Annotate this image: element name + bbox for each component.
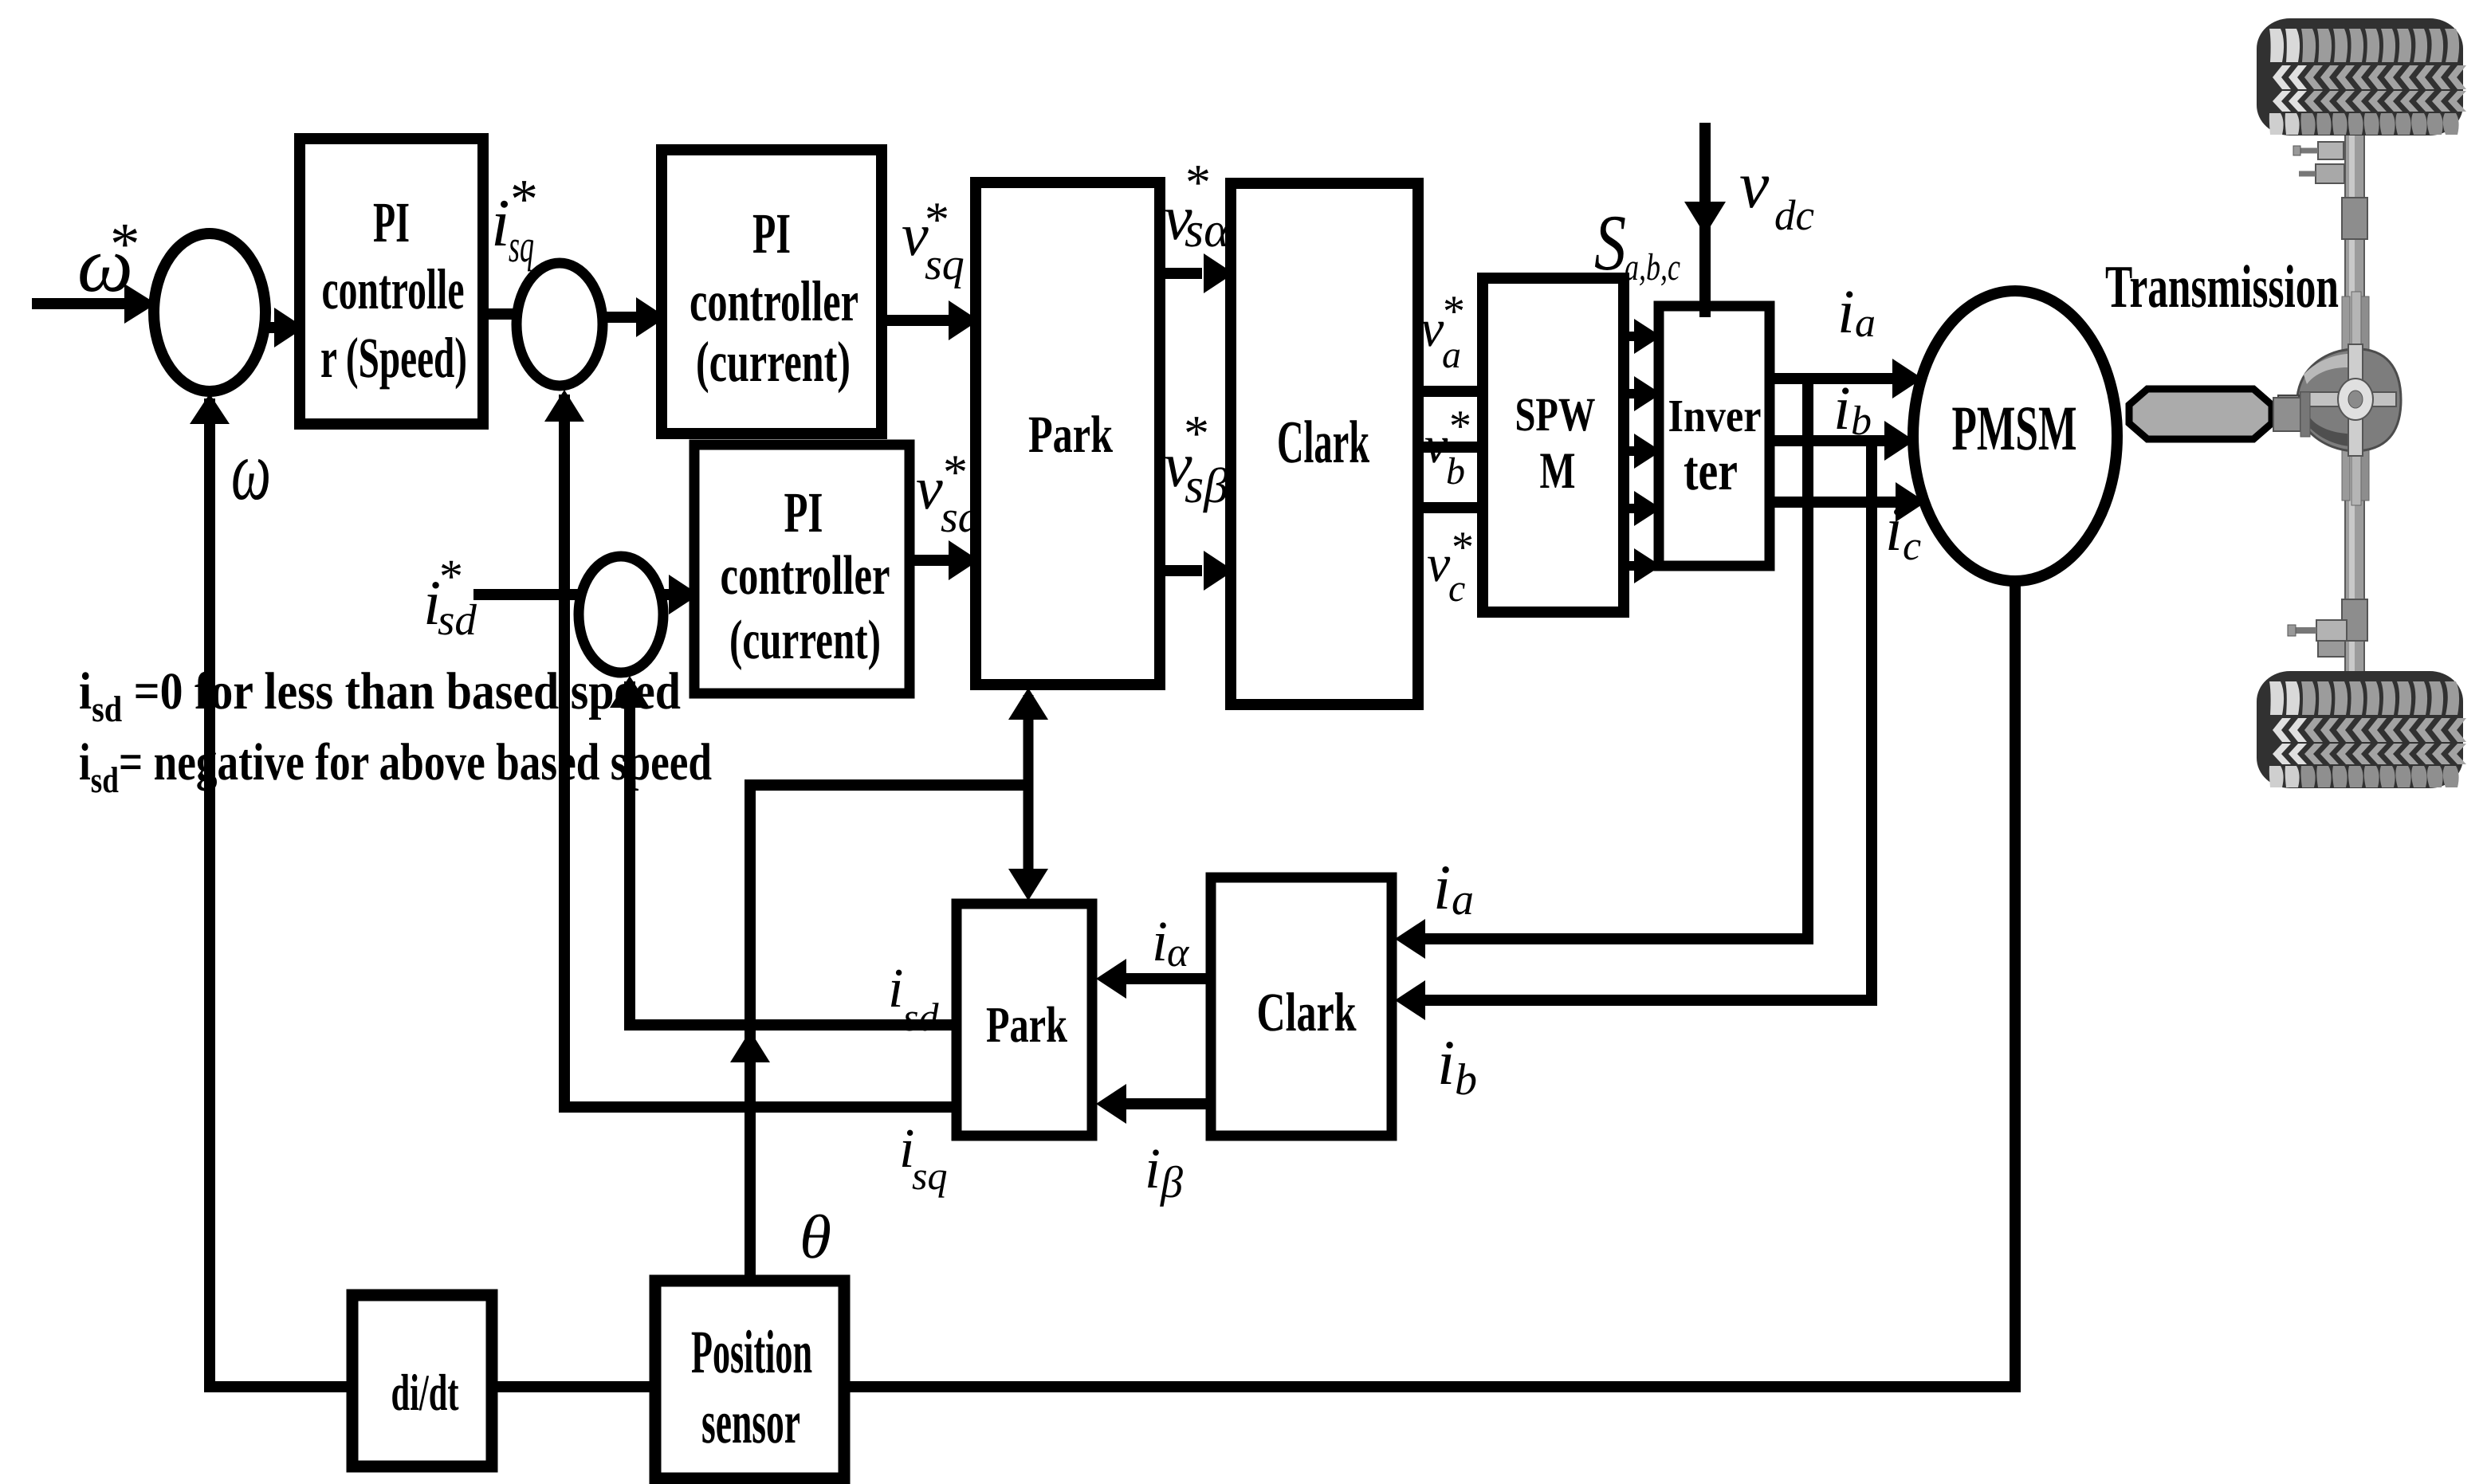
wire ib feedback down and into Clark measure [1395,436,1872,1020]
wire ia feedback down and into Clark measure [1395,374,1808,959]
note line 1 isd=0 for less than based speed [79,662,681,729]
label va-star [1420,287,1465,376]
summing junction E1 (speed error) [154,234,265,391]
svg-text:v: v [1420,300,1444,358]
svg-text:a: a [1442,334,1461,376]
svg-text:*: * [1443,287,1465,336]
label vb-star [1424,402,1471,493]
label vdc [1739,148,1814,239]
wire Clark to SPWM vc [1418,502,1483,513]
wire inverter to PMSM ia [1770,359,1923,398]
label theta [800,1202,831,1271]
svg-text:controller: controller [690,269,858,333]
wire Clark to SPWM vb [1418,442,1483,453]
wire E1 to PI speed controller [265,308,304,347]
bottom wheel tire [2257,671,2466,788]
svg-text:*: * [439,550,463,603]
svg-text:M: M [1540,442,1576,500]
block Clark (feedback) [1211,877,1392,1136]
label ib inverter output [1833,373,1872,444]
wire PI speed to E2 [483,308,518,320]
label omega feedback [231,424,271,518]
wire isq from Park feedback up to E2 [544,390,957,1107]
svg-text:Park: Park [1028,406,1113,464]
wire theta from position sensor with mid arrowhead [730,785,1028,1281]
svg-text:b: b [1455,1055,1477,1105]
svg-text:b: b [1851,398,1872,444]
wire vdc input with mid arrowhead [1684,123,1726,317]
wire Clark to Park i-alpha [1096,959,1211,999]
svg-text:*: * [510,169,538,230]
wire PMSM bottom feedback down [844,581,2015,1387]
svg-text:Clark: Clark [1277,409,1369,476]
label i-beta [1145,1137,1183,1207]
svg-text:i: i [1433,853,1451,923]
svg-text:PMSM: PMSM [1952,394,2077,464]
svg-text:*: * [1449,402,1471,451]
wire PI current q to Park [882,300,979,340]
differential housing [2278,292,2401,505]
wheel axle assembly [2342,134,2367,676]
svg-text:*: * [925,193,949,247]
wire di/dt to omega feedback riser [190,394,352,1387]
block PI controller (Speed) [300,139,483,424]
wire position sensor to di/dt [492,1381,655,1392]
wire E2 to PI current q [603,297,666,337]
label i-alpha [1152,909,1190,976]
svg-text:v: v [1427,535,1451,593]
label isq under Park feedback [899,1118,947,1198]
wire inverter to PMSM ic [1770,482,1926,522]
block PI controller current q [662,150,882,434]
label vsq-star [902,193,965,289]
wire theta riser to Park forward (up arrow) and Park feedback (down arrow) [1008,688,1048,901]
svg-text:sα: sα [1185,203,1231,257]
label vc-star [1427,523,1474,610]
svg-text:controlle: controlle [322,257,465,321]
label omega-star [77,211,140,308]
ellipse PMSM motor [1913,291,2117,581]
svg-text:c: c [1448,567,1465,610]
svg-text:Inver: Inver [1668,390,1762,442]
axle fittings top [2293,142,2344,183]
label vs-alpha-star [1164,154,1231,257]
svg-text:v: v [1739,148,1770,222]
block Position sensor [655,1281,844,1478]
wire isd from Park feedback up to E3 [610,676,957,1025]
svg-text:Park: Park [986,996,1067,1053]
svg-text:sd: sd [941,493,981,542]
label isd-star input [423,550,477,644]
svg-text:i: i [1837,277,1855,346]
svg-text:(current): (current) [729,610,881,671]
svg-text:PI: PI [373,190,410,254]
svg-text:PI: PI [752,202,791,265]
svg-text:sd: sd [903,995,939,1039]
svg-text:a,b,c: a,b,c [1625,246,1680,289]
svg-text:i: i [1885,494,1903,563]
label Transmission [2105,253,2339,320]
label S abc [1594,198,1680,289]
svg-text:i: i [1152,909,1168,973]
label vs-beta-star [1164,405,1228,513]
wires SPWM to Inverter 5 gate arrows [1624,319,1661,583]
label ia inverter output [1837,277,1876,346]
svg-text:Transmission: Transmission [2105,253,2339,320]
svg-text:Clark: Clark [1257,982,1357,1042]
svg-text:controller: controller [721,545,890,607]
svg-text:S: S [1594,198,1626,287]
svg-text:SPW: SPW [1515,388,1596,441]
label isd into Park feedback [888,958,939,1039]
svg-text:sq: sq [925,240,965,289]
svg-text:sd: sd [438,595,477,644]
svg-text:α: α [1167,930,1190,976]
svg-text:(current): (current) [696,330,851,394]
block Clark (forward) [1231,183,1418,705]
svg-text:β: β [1160,1158,1183,1207]
summing junction E3 (isd error) [579,556,663,673]
block Park (feedback) [957,904,1092,1136]
svg-text:di/dt: di/dt [391,1364,459,1422]
svg-text:sensor: sensor [701,1388,800,1456]
label isq-star [491,169,538,272]
wire E3 to PI current d [662,575,699,614]
block Park (forward) [976,183,1160,685]
svg-text:*: * [110,211,140,277]
block di/dt [352,1295,492,1466]
label ic inverter output [1885,494,1921,569]
svg-text:isd =0 for less than based spe: isd =0 for less than based speed [79,662,681,729]
svg-text:*: * [1185,154,1211,210]
svg-text:θ: θ [800,1202,831,1271]
block PI controller current d [694,445,910,693]
block Inverter [1659,306,1770,566]
svg-text:i: i [1833,373,1851,442]
label ib feedback [1437,1028,1477,1105]
block SPWM [1483,278,1624,612]
svg-text:i: i [1437,1028,1455,1098]
label ia feedback [1433,853,1474,925]
svg-text:b: b [1446,450,1465,493]
note line 2 isd negative for above based speed [79,733,712,800]
wire Park to Clark beta [1160,551,1234,591]
summing junction E2 (isq error) [517,263,603,386]
svg-text:v: v [1424,416,1448,474]
label vsd-star [916,446,981,542]
svg-text:ter: ter [1684,441,1738,502]
svg-text:a: a [1452,875,1474,925]
top wheel tire [2257,18,2466,135]
axle fitting bottom [2288,620,2347,657]
wire inverter to PMSM ib [1770,421,1915,461]
svg-text:c: c [1903,524,1921,569]
svg-text:*: * [1184,405,1209,461]
svg-text:r (Speed): r (Speed) [320,326,467,390]
wire Clark to SPWM va [1418,386,1483,397]
svg-text:PI: PI [784,481,823,544]
wire PI current d to Park [910,540,979,580]
transmission coupling capsule [2129,389,2310,439]
svg-text:isd= negative for above based: isd= negative for above based speed [79,733,712,800]
svg-text:i: i [888,958,903,1019]
svg-text:*: * [943,446,968,500]
wire isd-star input [473,589,580,600]
svg-text:ω: ω [231,424,271,518]
svg-text:a: a [1855,300,1876,346]
svg-text:i: i [491,186,510,261]
svg-text:i: i [1145,1137,1161,1200]
svg-text:sβ: sβ [1185,459,1228,513]
svg-text:*: * [1452,523,1474,572]
wire Park to Clark alpha [1160,253,1234,293]
svg-text:Position: Position [691,1317,812,1386]
wire omega-star input [32,284,156,324]
wire Clark to Park i-beta [1096,1084,1211,1124]
svg-text:dc: dc [1774,191,1814,239]
svg-text:v: v [916,455,943,522]
svg-text:sq: sq [912,1153,947,1198]
